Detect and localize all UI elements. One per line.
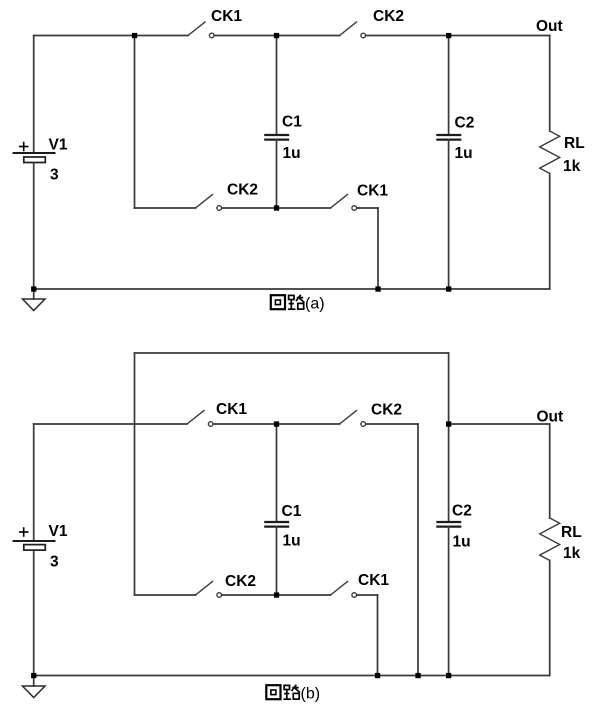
wire CK2 output right segment (b): [366, 423, 418, 425]
switch CK2 blade (b top): [340, 411, 357, 425]
svg-text:C2: C2: [452, 503, 472, 520]
wire switch row left segment (b): [34, 423, 187, 425]
junction node b4 (ground rail / battery): [31, 673, 36, 678]
svg-text:CK1: CK1: [358, 572, 389, 589]
switch CK2 contact circle (b bottom): [217, 593, 222, 598]
resistor RL zigzag (b): [540, 518, 560, 560]
junction node a4 (bottom switch row / C1): [274, 205, 279, 210]
wire between CK1 and CK2 (b top): [213, 423, 339, 425]
wire bottom switch row left (b): [135, 594, 196, 596]
svg-text:CK1: CK1: [357, 183, 388, 200]
wire battery V1 bottom vertical (b): [33, 550, 35, 675]
wire vertical x=134.5 (a): [134, 36, 136, 209]
svg-text:Out: Out: [537, 409, 564, 426]
battery V1 plus sign (a): [20, 146, 28, 148]
wire left vertical x=134.5 (b): [134, 353, 136, 595]
capacitor C1 top lead (b): [276, 424, 278, 522]
wire battery V1 bottom vertical (a): [33, 163, 35, 290]
wire top rail (b): [135, 352, 449, 354]
junction node b1 (switch row / C1 top): [274, 421, 279, 426]
svg-text:(b): (b): [301, 686, 321, 703]
battery V1 positive plate (a): [14, 152, 55, 154]
svg-text:(a): (a): [305, 296, 325, 313]
svg-text:3: 3: [50, 554, 59, 571]
junction node b3 (bottom switch row / C1): [274, 592, 279, 597]
junction node b7 (ground rail / C2): [446, 673, 451, 678]
capacitor C2 bottom lead (b): [448, 527, 450, 676]
switch CK1 contact circle (a top): [209, 33, 214, 38]
svg-text:1u: 1u: [453, 534, 471, 551]
capacitor C1 bottom lead (a): [276, 140, 278, 208]
wire bottom rail (a): [34, 288, 550, 290]
wire CK2 output down vertical (b): [417, 424, 419, 676]
capacitor C2 plates (b): [437, 521, 460, 523]
ground symbol (b): [23, 686, 46, 698]
switch CK1 blade (b bottom): [331, 582, 348, 596]
wire between CK2 and CK1 (a bottom): [222, 207, 331, 209]
wire Out segment (b): [449, 423, 550, 425]
svg-text:1u: 1u: [455, 145, 473, 162]
wire RL bottom vertical (a): [549, 173, 551, 289]
resistor RL zigzag (a): [540, 131, 560, 173]
battery V1 negative plate box (a): [24, 157, 46, 163]
battery V1 plus sign (b): [20, 531, 28, 533]
battery V1 negative plate box (b): [24, 545, 46, 551]
label kanji 路 of 回路(b): [283, 685, 300, 699]
label kanji 回 of 回路(a): [271, 295, 285, 309]
svg-text:1u: 1u: [283, 145, 301, 162]
wire battery V1 top vertical (a): [33, 36, 35, 154]
capacitor C1 top lead (a): [276, 36, 278, 136]
switch CK1 contact circle (b top): [208, 422, 213, 427]
svg-text:RL: RL: [561, 524, 582, 541]
junction node a7 (ground rail / C2): [446, 286, 451, 291]
capacitor C2 top lead (a): [448, 36, 450, 136]
wire CK2 to Out corner (a top): [366, 35, 550, 37]
label kanji 回 of 回路(b): [266, 685, 280, 699]
switch CK2 contact circle (a top): [361, 33, 366, 38]
capacitor C2 top lead (b): [448, 424, 450, 522]
wire top rail left segment (a): [34, 35, 188, 37]
switch CK2 blade (b bottom): [196, 582, 213, 596]
svg-text:C2: C2: [455, 115, 475, 132]
wire CK1 output down vertical (a): [377, 208, 379, 289]
junction node a5 (ground rail / battery): [31, 286, 36, 291]
wire between CK1 and CK2 (a top): [214, 35, 339, 37]
switch CK2 contact circle (a bottom): [217, 206, 222, 211]
wire RL top vertical (a): [549, 36, 551, 132]
wire bottom rail (b): [34, 675, 550, 677]
svg-text:RL: RL: [564, 135, 585, 152]
wire RL bottom vertical (b): [549, 560, 551, 675]
ground wire stub (a): [33, 289, 35, 299]
ground symbol (a): [23, 299, 46, 311]
switch CK1 blade (a top): [188, 22, 205, 36]
label kanji 路 of 回路(a): [288, 295, 305, 309]
capacitor C1 bottom lead (b): [276, 527, 278, 595]
switch CK2 contact circle (b top): [361, 422, 366, 427]
switch CK1 contact circle (b bottom): [352, 593, 357, 598]
switch CK1 blade (a bottom): [331, 195, 348, 209]
wire CK1 bottom to corner (a): [357, 207, 378, 209]
wire CK1 bottom to corner (b): [357, 594, 378, 596]
switch CK2 blade (a bottom): [196, 195, 213, 209]
junction node b2 (Out node / C2 top): [446, 421, 451, 426]
wire RL top vertical (b): [549, 424, 551, 518]
switch CK1 blade (b top): [187, 411, 204, 425]
svg-text:V1: V1: [49, 137, 68, 154]
svg-text:V1: V1: [49, 523, 68, 540]
svg-text:CK2: CK2: [373, 8, 404, 25]
svg-text:1u: 1u: [283, 533, 301, 550]
svg-text:CK2: CK2: [371, 402, 402, 419]
junction node b6 (ground rail / CK2 output): [415, 673, 420, 678]
battery V1 positive plate (b): [14, 540, 55, 542]
wire bottom switch row left (a): [135, 207, 196, 209]
capacitor C2 bottom lead (a): [448, 140, 450, 289]
svg-text:CK1: CK1: [211, 8, 242, 25]
junction node a1 (top rail / x=134.5): [132, 33, 137, 38]
capacitor C1 plates (b): [265, 521, 288, 523]
switch CK2 blade (a top): [340, 22, 357, 36]
svg-text:CK2: CK2: [227, 182, 258, 199]
junction node a6 (ground rail / CK1 output): [375, 286, 380, 291]
svg-text:1k: 1k: [563, 545, 581, 562]
svg-text:1k: 1k: [563, 158, 581, 175]
wire CK1 output down vertical (b): [377, 595, 379, 676]
wire between CK2 and CK1 (b bottom): [222, 594, 331, 596]
wire battery V1 top vertical (b): [33, 424, 35, 541]
svg-text:C1: C1: [282, 114, 302, 131]
junction node b5 (ground rail / CK1 output): [375, 673, 380, 678]
switch CK1 contact circle (a bottom): [352, 206, 357, 211]
capacitor C1 plates (a): [265, 134, 288, 136]
junction node a3 (top rail / C2): [446, 33, 451, 38]
svg-text:Out: Out: [536, 18, 563, 35]
junction node a2 (top rail / C1): [274, 33, 279, 38]
ground wire stub (b): [33, 676, 35, 687]
wire right vertical x=448.6 upper (b): [448, 353, 450, 424]
svg-text:CK2: CK2: [225, 573, 256, 590]
svg-text:3: 3: [50, 167, 59, 184]
svg-text:C1: C1: [282, 503, 302, 520]
capacitor C2 plates (a): [437, 134, 460, 136]
svg-text:CK1: CK1: [216, 401, 247, 418]
